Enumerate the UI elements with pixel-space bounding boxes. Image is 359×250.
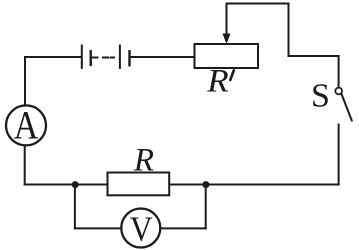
wire left vertical upper [24,57,26,106]
voltmeter branch left vertical [74,185,76,229]
svg-text:V: V [130,210,153,249]
wire horizontal mid-right [289,55,339,57]
svg-text:R: R [206,64,229,100]
svg-text:S: S [311,78,330,115]
wire top horizontal [227,3,289,5]
switch S blade [342,94,352,120]
voltmeter V1 circle [121,209,160,248]
ammeter A1 circle [6,105,46,145]
voltmeter branch right vertical [205,185,207,229]
svg-text:A: A [14,104,39,148]
battery dashed link dash1 [103,57,108,59]
wire switch to upper corner [338,56,340,87]
junction node dot left [72,181,79,188]
wire left vertical lower [24,145,26,184]
wire right vertical lower [338,125,340,185]
battery cell1 long plate [81,45,83,70]
svg-text:R: R [133,143,154,179]
rheostat R' body [195,44,259,68]
battery cell2 short plate [128,50,130,67]
battery cell1 stub wire [91,57,98,59]
battery cell2 long plate [119,45,121,70]
wire right vertical to top [288,4,290,57]
rheostat wiper arrowhead [223,34,231,45]
voltmeter branch bottom right wire [160,227,205,229]
resistor R body [108,173,170,196]
battery cell1 short plate [90,50,92,66]
wire bottom left segment [25,184,108,186]
battery dashed link dash2 [111,57,115,59]
switch S pivot circle [335,88,342,95]
wire battery to rheostat [131,56,195,58]
label R' prime mark [230,70,234,80]
voltmeter branch bottom left wire [75,227,121,229]
wire top-left horizontal [25,56,81,58]
junction node dot right [202,181,209,188]
wire bottom right segment [169,184,338,186]
rheostat wiper stem [226,4,228,36]
